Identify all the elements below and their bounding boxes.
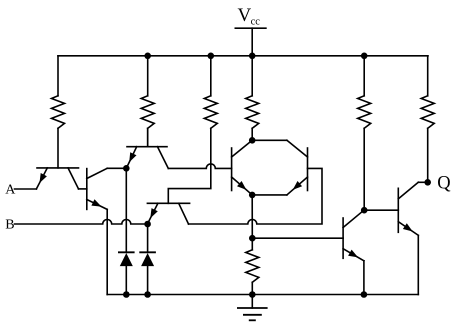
node rail-Vcc [249,53,256,60]
label Q [437,174,451,194]
resistor R7 [246,250,259,282]
diode D2 [140,252,155,294]
label A [5,183,16,198]
wire Q8 collector to node Q [418,181,427,183]
wire node B7 to Q8 base [364,209,398,211]
svg-text:V: V [238,5,252,26]
wire R1 to Q1 base [57,128,59,168]
resistor R6 [421,96,434,129]
transistor Q3 [126,128,168,168]
transistor Q7 (darlington driver) [343,210,364,261]
wire R6 to node Q [427,128,429,182]
node rail-R2 [144,53,151,60]
node B (Q4 emitter / D2) [144,221,151,228]
transistor Q2 [87,168,107,209]
wire Q8 emitter down to ground rail [417,235,419,294]
wire R3 column top [210,56,212,96]
wire top rail [58,55,428,57]
transistor Q6 (right of pair) [287,140,308,195]
diode D1 [119,252,134,294]
wire Q1 collector to Q2 base [79,188,87,190]
node rail-Q7e [361,291,368,298]
wire Vcc stem [251,28,253,56]
wire R4 column top [251,56,253,96]
node rail-R5 [361,53,368,60]
wire R7 to ground rail [251,282,253,294]
Vcc power bar [235,27,266,29]
wire Q7 emitter down to ground rail [363,261,365,295]
wire R1 column top [57,56,59,96]
svg-text:Q: Q [437,174,451,194]
wire pair emitters [252,194,287,196]
svg-text:A: A [5,183,16,198]
ground [238,295,267,321]
label B [5,218,14,233]
transistor Q4 (input B) [147,203,189,224]
wire R7 node down [251,238,253,250]
wire Q3 collector to Q5 base (hop over R3 column) [168,164,231,169]
resistor R2 [141,96,154,129]
resistor R4 [246,96,259,129]
wire ground rail [107,294,418,296]
wire R4 to node C1 [251,128,253,140]
wire R2 to Q3 base [147,128,149,146]
Vcc label [238,5,261,28]
wire R5 column top [363,56,365,96]
svg-text:cc: cc [251,16,261,27]
resistor R5 [358,96,371,129]
node rail-R3 [208,53,215,60]
node Q (output) [424,179,431,186]
node rail-gnd [249,291,256,298]
wire R3 to Q4 base [168,128,211,203]
node rail-D1 [123,291,130,298]
wire Q2 emitter down to ground rail [106,209,108,294]
resistor R1 [52,96,65,129]
node B7 (R5 / Q7 collector / Q8 base) [361,207,368,214]
node C1 (R4 / Q5 / Q6 collectors) [249,137,256,144]
wire pair collectors [252,139,287,141]
wire node B down to D2 [147,224,149,252]
transistor Q8 (output) [398,182,418,235]
resistor R3 [204,96,217,129]
transistor Q1 (input A) [36,168,78,189]
wire R5 to node B7 [363,128,365,210]
wire R7 node to Q7 base [252,237,343,239]
node E1 (Q2 collector / Q3 emitter / D1) [123,165,130,172]
transistor Q5 (left of pair) [232,140,253,195]
node E2 (pair emitters / R7) [249,192,256,199]
wire R6 column top [427,56,429,96]
wire node E1 down to D1 [125,168,127,252]
wire Q2 collector to node E1 [107,167,126,169]
svg-text:B: B [5,218,14,233]
node rail-D2 [144,291,151,298]
node R7 top (Q7 base tap) [249,235,256,242]
wire Q4 collector to Q6 base (hop over R7 column) [189,168,323,224]
wire input A [15,188,37,190]
wire node E2 down to R7 node [251,195,253,238]
wire input B (hops over two columns) [15,220,148,225]
wire R2 column top [147,56,149,96]
